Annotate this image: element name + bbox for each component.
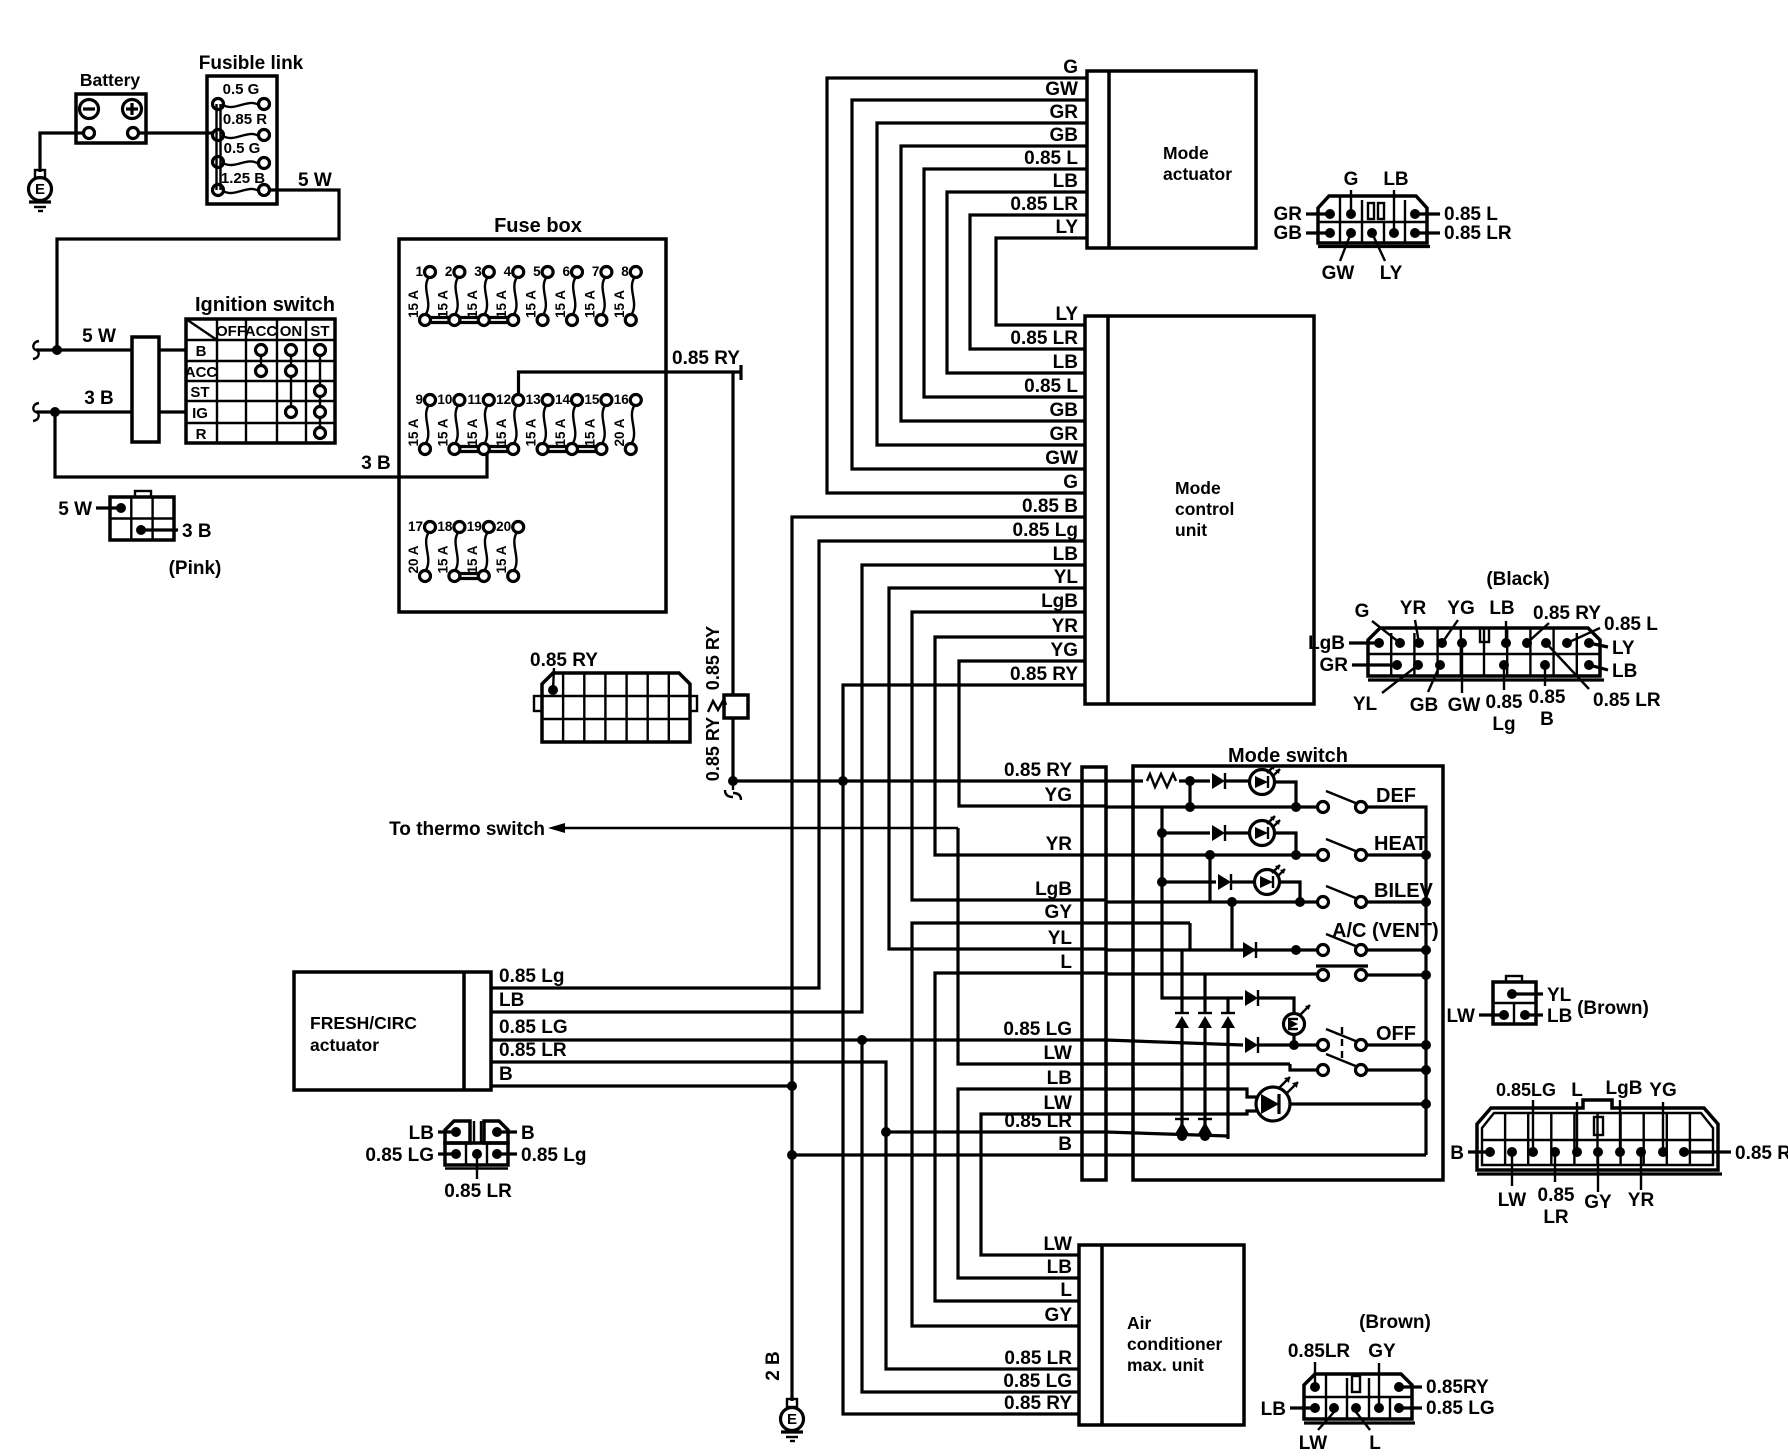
connector symbol 0.85RY stub xyxy=(725,781,741,800)
wire 3B to ignition switch xyxy=(36,410,132,413)
wire LED HEAT to switch xyxy=(1273,833,1296,855)
svg-text:17: 17 xyxy=(408,519,423,534)
switch OFF 2 xyxy=(1318,1054,1367,1076)
svg-text:ST: ST xyxy=(310,323,329,340)
svg-text:0.85: 0.85 xyxy=(1529,687,1566,708)
svg-text:YR: YR xyxy=(1052,616,1079,637)
svg-text:LB: LB xyxy=(1047,1068,1072,1089)
switch DEF xyxy=(1318,785,1417,813)
pin 0.85RY AC xyxy=(1394,1377,1489,1398)
svg-text:LB: LB xyxy=(1053,171,1078,192)
wire 0.85LR to mode switch connector xyxy=(886,1130,1106,1133)
LED HEAT xyxy=(1250,816,1281,846)
svg-text:GB: GB xyxy=(1050,400,1079,421)
wire BILEV LED feed xyxy=(1157,877,1216,887)
ignition switch body xyxy=(132,337,159,442)
svg-text:7: 7 xyxy=(592,264,600,279)
svg-text:16: 16 xyxy=(614,392,630,407)
svg-text:LB: LB xyxy=(1489,598,1514,619)
svg-text:0.85 RY: 0.85 RY xyxy=(1735,1143,1788,1164)
svg-text:L: L xyxy=(1571,1080,1583,1101)
switch A/C xyxy=(1318,934,1367,956)
svg-text:YG: YG xyxy=(1447,598,1474,619)
fuse bus 18-19 xyxy=(454,574,486,579)
svg-text:6: 6 xyxy=(562,264,570,279)
svg-text:0.85RY: 0.85RY xyxy=(1426,1377,1489,1398)
svg-text:0.85 LR: 0.85 LR xyxy=(1593,690,1661,711)
svg-text:15 A: 15 A xyxy=(465,545,480,573)
wire A/C to bus xyxy=(1366,945,1431,955)
svg-text:Mode: Mode xyxy=(1163,143,1209,163)
svg-text:0.85 L: 0.85 L xyxy=(1024,148,1078,169)
svg-text:OFF: OFF xyxy=(216,323,246,340)
diode HEAT xyxy=(1212,825,1250,841)
svg-text:15: 15 xyxy=(584,392,600,407)
svg-text:GW: GW xyxy=(1045,79,1078,100)
diode array vertical 1 xyxy=(1175,950,1189,1136)
pin YL thermo xyxy=(1507,985,1572,1006)
node 0.85LG junction xyxy=(857,1035,867,1045)
svg-text:Battery: Battery xyxy=(80,70,141,90)
wire 0.85LG to air conditioner xyxy=(862,1040,1079,1392)
svg-text:10: 10 xyxy=(437,392,452,407)
svg-text:B: B xyxy=(1058,1134,1072,1155)
connector (Pink) xyxy=(58,491,221,579)
svg-text:L: L xyxy=(1369,1433,1381,1454)
switch BILEV xyxy=(1318,880,1434,908)
svg-text:OFF: OFF xyxy=(1376,1023,1416,1045)
node LgB vertical xyxy=(1227,897,1237,907)
pin LB thermo xyxy=(1520,1006,1572,1027)
node YR vertical xyxy=(1205,850,1215,860)
svg-text:GR: GR xyxy=(1320,655,1349,676)
pin GR xyxy=(1320,655,1403,676)
svg-text:0.85 RY: 0.85 RY xyxy=(1004,760,1072,781)
svg-text:LB: LB xyxy=(1612,661,1637,682)
svg-text:13: 13 xyxy=(526,392,542,407)
wire L row into box xyxy=(1106,972,1317,975)
svg-text:FRESH/CIRC: FRESH/CIRC xyxy=(310,1013,417,1033)
svg-text:15 A: 15 A xyxy=(435,290,450,318)
wire vertical YR feed xyxy=(1208,855,1211,902)
svg-text:20 A: 20 A xyxy=(612,418,627,446)
pin LW thermo xyxy=(1447,1006,1510,1027)
svg-text:E: E xyxy=(35,181,45,198)
connector mode switch harness xyxy=(1477,1100,1722,1174)
svg-text:YL: YL xyxy=(1048,928,1073,949)
svg-text:YL: YL xyxy=(1353,694,1378,715)
svg-text:0.85 B: 0.85 B xyxy=(1022,496,1078,517)
svg-text:15 A: 15 A xyxy=(524,290,539,318)
svg-text:Air: Air xyxy=(1127,1313,1152,1333)
svg-text:14: 14 xyxy=(555,392,571,407)
node 0.85RY to switch xyxy=(838,776,848,786)
svg-text:LR: LR xyxy=(1543,1207,1569,1228)
wire GR mode actuator to mode control xyxy=(877,102,1087,445)
svg-text:G: G xyxy=(1355,601,1370,622)
svg-text:LB: LB xyxy=(1547,1006,1572,1027)
connector thermo (Brown) xyxy=(1493,976,1649,1024)
node B junction FRESH xyxy=(787,1081,797,1091)
diode array vertical 3 xyxy=(1221,998,1235,1139)
svg-text:L: L xyxy=(1060,1280,1072,1301)
svg-text:0.85 LR: 0.85 LR xyxy=(1444,223,1512,244)
fuse bus 13-15 xyxy=(542,447,604,452)
node 0.85LR junction xyxy=(881,1127,891,1137)
wire OFF2 to bus xyxy=(1366,1065,1431,1075)
connector mode switch strip xyxy=(1082,767,1106,1180)
fuse box xyxy=(399,215,666,612)
svg-text:0.85 LR: 0.85 LR xyxy=(1010,328,1078,349)
wire YR row into box xyxy=(1106,853,1317,856)
svg-text:0.85 LG: 0.85 LG xyxy=(1003,1371,1072,1392)
svg-text:LY: LY xyxy=(1380,263,1403,284)
svg-text:0.85 R: 0.85 R xyxy=(223,111,267,128)
switch OFF xyxy=(1318,1023,1417,1059)
svg-text:8: 8 xyxy=(621,264,629,279)
pin GY AC xyxy=(1368,1341,1396,1413)
wire 5W to ignition switch xyxy=(36,348,132,351)
svg-text:0.85 LR: 0.85 LR xyxy=(1004,1348,1072,1369)
svg-text:(Black): (Black) xyxy=(1486,569,1549,590)
svg-text:LW: LW xyxy=(1498,1190,1527,1211)
svg-text:11: 11 xyxy=(468,392,483,407)
battery xyxy=(76,70,146,143)
wire 0.85LR row into box xyxy=(1106,1132,1228,1136)
svg-text:ACC: ACC xyxy=(245,323,278,340)
fuse 14 15 A xyxy=(553,392,583,455)
wire G mode actuator to mode control xyxy=(827,57,1087,493)
mode actuator unit xyxy=(1087,71,1256,248)
wire YR mode control to mode switch xyxy=(935,616,1106,855)
wire 0.85LG FRESH to mode switch xyxy=(491,1017,1106,1040)
fuse 16 20 A xyxy=(612,392,642,455)
svg-text:R: R xyxy=(196,426,207,443)
svg-text:Mode switch: Mode switch xyxy=(1228,745,1348,767)
wire 0.85RY vertical xyxy=(703,372,733,695)
fuse 5 15A xyxy=(524,264,554,326)
wire 0.85LG row into box xyxy=(1106,1040,1243,1045)
svg-text:HEAT: HEAT xyxy=(1374,833,1427,855)
wire 0.85 L mode actuator to mode control xyxy=(924,148,1087,397)
connector hook 3B xyxy=(33,403,39,421)
svg-text:(Brown): (Brown) xyxy=(1577,998,1649,1019)
svg-text:0.85 Lg: 0.85 Lg xyxy=(1013,520,1078,541)
svg-text:0.85 RY: 0.85 RY xyxy=(530,650,598,671)
svg-text:B: B xyxy=(1540,709,1554,730)
fuse 2 15A xyxy=(435,264,465,326)
svg-text:E: E xyxy=(787,1411,797,1428)
LED DEF xyxy=(1250,765,1281,795)
svg-text:GR: GR xyxy=(1050,102,1079,123)
pin 0.85Lg xyxy=(1486,660,1523,735)
fuse 8 15A xyxy=(612,264,642,326)
wire ignition body to table IG row xyxy=(159,410,186,413)
svg-text:GY: GY xyxy=(1045,1305,1073,1326)
svg-text:GY: GY xyxy=(1045,902,1073,923)
wire LED to OFF row xyxy=(1292,1034,1295,1045)
svg-text:LgB: LgB xyxy=(1041,591,1078,612)
node 3B junction xyxy=(50,407,60,417)
svg-text:LY: LY xyxy=(1055,304,1078,325)
svg-text:0.85LG: 0.85LG xyxy=(1496,1080,1556,1100)
svg-text:18: 18 xyxy=(437,519,453,534)
svg-text:0.85: 0.85 xyxy=(1538,1185,1575,1206)
wire B row to bus xyxy=(1106,1153,1426,1156)
svg-text:0.5 G: 0.5 G xyxy=(223,81,260,98)
pin GB xyxy=(1410,660,1445,716)
svg-text:G: G xyxy=(1344,169,1359,190)
svg-text:Lg: Lg xyxy=(1492,714,1515,735)
svg-text:0.85 LG: 0.85 LG xyxy=(1003,1019,1072,1040)
wire YG row into box xyxy=(1106,805,1317,808)
node A/C switch feed xyxy=(1291,945,1301,955)
svg-text:15 A: 15 A xyxy=(435,418,450,446)
wire vertical LgB feed xyxy=(1230,902,1233,950)
svg-text:0.85 Lg: 0.85 Lg xyxy=(521,1145,586,1166)
pin LW harness xyxy=(1498,1147,1527,1211)
svg-text:Ignition switch: Ignition switch xyxy=(195,294,335,316)
svg-text:5 W: 5 W xyxy=(298,170,332,191)
fuse 10 15 A xyxy=(435,392,465,455)
wire 0.85 LR mode actuator to mode control xyxy=(970,194,1087,349)
svg-text:15 A: 15 A xyxy=(494,290,509,318)
wire thermo tap and LW xyxy=(958,828,1106,1064)
svg-text:B: B xyxy=(1450,1143,1464,1164)
pin LgB xyxy=(1308,633,1384,654)
svg-text:ACC: ACC xyxy=(185,364,218,381)
diode OFF row xyxy=(1245,1037,1317,1053)
wire LW2 row into box xyxy=(1106,1111,1257,1114)
ground E1 xyxy=(29,170,52,211)
svg-text:0.85 L: 0.85 L xyxy=(1024,376,1078,397)
diode bottom 1 xyxy=(1175,1119,1189,1141)
svg-text:LB: LB xyxy=(1261,1399,1286,1420)
svg-text:GW: GW xyxy=(1322,263,1355,284)
svg-text:LW: LW xyxy=(1044,1043,1073,1064)
svg-text:G: G xyxy=(1063,472,1078,493)
svg-text:LB: LB xyxy=(1047,1257,1072,1278)
svg-text:0.85 L: 0.85 L xyxy=(1444,204,1498,225)
mode switch unit xyxy=(1133,745,1443,1180)
pin 0.85L xyxy=(1410,204,1498,225)
svg-text:conditioner: conditioner xyxy=(1127,1334,1222,1354)
svg-text:max. unit: max. unit xyxy=(1127,1355,1204,1375)
svg-text:unit: unit xyxy=(1175,520,1207,540)
svg-text:LW: LW xyxy=(1044,1234,1073,1255)
fuse 20 15 A xyxy=(494,519,524,582)
svg-text:B: B xyxy=(521,1123,535,1144)
pin YR xyxy=(1400,598,1427,648)
svg-text:0.85 LR: 0.85 LR xyxy=(444,1181,512,1202)
LED BILEV xyxy=(1255,865,1286,895)
node LED bus DEF xyxy=(1185,776,1195,786)
svg-text:LgB: LgB xyxy=(1308,633,1345,654)
svg-text:0.85LR: 0.85LR xyxy=(1288,1341,1351,1362)
pin 0.85RY xyxy=(1522,603,1601,648)
svg-text:YG: YG xyxy=(1045,785,1072,806)
pin 0.85LR AC xyxy=(1288,1341,1351,1392)
switch HEAT xyxy=(1318,833,1427,861)
wire DEF to bus xyxy=(1366,807,1426,1155)
pin 0.85LR xyxy=(1541,638,1661,711)
svg-text:0.85 LG: 0.85 LG xyxy=(499,1017,568,1038)
wire OFF LED feed xyxy=(1162,882,1243,998)
svg-text:YR: YR xyxy=(1400,598,1427,619)
pin LB bottom xyxy=(1584,660,1637,682)
resistor mode switch xyxy=(1106,774,1210,787)
svg-text:15 A: 15 A xyxy=(465,418,480,446)
pin L AC xyxy=(1351,1403,1381,1454)
svg-text:GW: GW xyxy=(1448,695,1481,716)
pin LY xyxy=(1367,228,1403,284)
svg-text:0.85 LG: 0.85 LG xyxy=(1426,1398,1495,1419)
node YG-LED bus xyxy=(1185,802,1195,812)
fuse 1 15A xyxy=(406,264,436,326)
fuse 9 15 A xyxy=(406,392,436,455)
svg-text:LW: LW xyxy=(1447,1006,1476,1027)
svg-text:B: B xyxy=(196,343,207,360)
svg-text:LB: LB xyxy=(1053,352,1078,373)
svg-text:G: G xyxy=(1063,57,1078,78)
svg-text:control: control xyxy=(1175,499,1234,519)
svg-text:0.85 RY: 0.85 RY xyxy=(672,348,740,369)
svg-text:Fuse box: Fuse box xyxy=(494,215,582,237)
wire 0.85RY below link xyxy=(703,717,733,781)
pin 0.85LR xyxy=(1410,223,1512,244)
pin 0.85B xyxy=(1529,660,1566,730)
wire OFF to bus xyxy=(1366,1040,1431,1050)
svg-text:0.85 RY: 0.85 RY xyxy=(703,626,723,690)
svg-text:15 A: 15 A xyxy=(465,290,480,318)
svg-text:0.85: 0.85 xyxy=(1486,692,1523,713)
svg-text:20 A: 20 A xyxy=(406,545,421,573)
node OFF feed xyxy=(1289,1040,1299,1050)
wire 0.85RY mode control to mode switch and AC xyxy=(843,664,1085,1414)
svg-text:0.85 RY: 0.85 RY xyxy=(1010,664,1078,685)
svg-text:YR: YR xyxy=(1046,834,1073,855)
svg-text:LW: LW xyxy=(1299,1433,1328,1454)
svg-text:0.85 RY: 0.85 RY xyxy=(1004,1393,1072,1414)
svg-text:3 B: 3 B xyxy=(361,453,391,474)
svg-text:L: L xyxy=(1060,952,1072,973)
svg-text:0.85 LG: 0.85 LG xyxy=(365,1145,434,1166)
connector hook 5W xyxy=(33,341,39,359)
pin GR xyxy=(1274,204,1336,225)
fuse bus 1-4 xyxy=(425,318,516,323)
pin 0.85LG harness xyxy=(1496,1080,1556,1157)
svg-text:LgB: LgB xyxy=(1606,1078,1643,1099)
svg-text:DEF: DEF xyxy=(1376,785,1416,807)
svg-text:12: 12 xyxy=(496,392,511,407)
svg-text:YR: YR xyxy=(1628,1190,1655,1211)
wire 0.85RY row to mode switch xyxy=(733,760,1106,781)
svg-text:15 A: 15 A xyxy=(612,290,627,318)
mode control unit xyxy=(1085,316,1314,704)
wire LB mode actuator to mode control xyxy=(947,171,1087,373)
svg-text:3: 3 xyxy=(474,264,482,279)
node HEAT LED feed xyxy=(1157,828,1167,838)
svg-text:To thermo switch: To thermo switch xyxy=(389,819,545,840)
fusible link 0.85RY xyxy=(708,695,748,718)
fuse 6 15A xyxy=(553,264,583,326)
diode array vertical 2 xyxy=(1198,974,1212,1136)
wire 0.85RY from fuse 12 xyxy=(519,348,742,394)
node 0.85RY junction xyxy=(728,776,738,786)
svg-text:4: 4 xyxy=(504,264,512,279)
pin 0.85L xyxy=(1562,614,1658,648)
svg-text:GR: GR xyxy=(1050,424,1079,445)
pin GW xyxy=(1448,638,1481,716)
svg-text:ON: ON xyxy=(280,323,303,340)
LED OFF small xyxy=(1284,1005,1311,1035)
svg-text:20: 20 xyxy=(496,519,511,534)
svg-text:B: B xyxy=(499,1064,513,1085)
pin LB top xyxy=(1489,598,1514,648)
wire B FRESH xyxy=(491,1064,792,1086)
svg-text:15 A: 15 A xyxy=(494,418,509,446)
svg-text:Fusible link: Fusible link xyxy=(199,53,304,74)
svg-text:2 B: 2 B xyxy=(763,1351,784,1381)
svg-text:0.5 G: 0.5 G xyxy=(224,140,261,157)
fuse 7 15A xyxy=(582,264,612,326)
svg-text:LB: LB xyxy=(1383,169,1408,190)
svg-text:3 B: 3 B xyxy=(182,521,212,542)
fuse 3 15A xyxy=(465,264,495,326)
wire L mode switch to AC xyxy=(935,952,1106,1301)
fuse 18 15 A xyxy=(435,519,465,582)
connector FRESH/CIRC 6-pin xyxy=(365,1121,586,1202)
LED big mode switch xyxy=(1256,1077,1298,1121)
svg-text:GY: GY xyxy=(1368,1341,1396,1362)
wire LgB row into box xyxy=(1106,900,1317,903)
wire LY mode actuator to mode control xyxy=(996,217,1087,325)
wire GY row into box xyxy=(1106,923,1190,950)
fuse 11 15 A xyxy=(465,392,495,455)
pin L harness xyxy=(1571,1080,1583,1157)
fuse bus 10-12 xyxy=(454,447,516,452)
svg-text:15 A: 15 A xyxy=(406,290,421,318)
wire LB row into box xyxy=(1106,1089,1257,1097)
svg-text:actuator: actuator xyxy=(1163,164,1232,184)
svg-text:YG: YG xyxy=(1051,640,1078,661)
svg-text:1.25 B: 1.25 B xyxy=(221,170,265,187)
svg-text:GW: GW xyxy=(1045,448,1078,469)
wire 0.85B mode control to B bus xyxy=(792,496,1085,1155)
pin GW xyxy=(1322,228,1356,284)
FRESH/CIRC actuator xyxy=(294,972,491,1090)
wire LED DEF to switch xyxy=(1273,782,1296,807)
svg-text:LgB: LgB xyxy=(1035,879,1072,900)
fuse 15 15 A xyxy=(582,392,612,455)
diode bottom 2 xyxy=(1198,1119,1212,1141)
svg-text:15 A: 15 A xyxy=(553,290,568,318)
wire battery positive to fusible link xyxy=(139,131,214,134)
svg-text:ST: ST xyxy=(190,384,209,401)
diode DEF xyxy=(1212,773,1250,789)
svg-text:IG: IG xyxy=(192,405,208,422)
pin G xyxy=(1344,169,1359,219)
pin YL xyxy=(1353,660,1423,715)
pin LB AC xyxy=(1261,1399,1320,1420)
svg-text:actuator: actuator xyxy=(310,1035,379,1055)
svg-text:GY: GY xyxy=(1584,1192,1612,1213)
diode OFF LED xyxy=(1245,990,1294,1013)
svg-text:GR: GR xyxy=(1274,204,1303,225)
svg-text:GB: GB xyxy=(1050,125,1079,146)
svg-text:15 A: 15 A xyxy=(553,418,568,446)
svg-text:0.85 Lg: 0.85 Lg xyxy=(499,966,564,987)
